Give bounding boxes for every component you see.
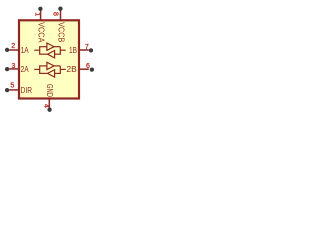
pin 4 terminal dot <box>47 108 51 112</box>
channel 2 top rail right wire <box>54 65 60 67</box>
channel 2 left stub wire <box>34 68 39 70</box>
svg-text:7: 7 <box>85 44 89 51</box>
svg-text:5: 5 <box>10 82 14 89</box>
channel 2 right connector wire <box>59 66 61 74</box>
pin 5 terminal dot <box>5 88 9 92</box>
channel 1 buffer A->B triangle <box>47 43 54 50</box>
svg-text:GND: GND <box>45 84 54 97</box>
channel 2 left connector wire <box>39 66 41 74</box>
channel 1 top rail left wire <box>39 46 47 48</box>
channel 1 bottom rail right wire <box>55 53 61 55</box>
svg-text:2: 2 <box>11 43 15 50</box>
svg-text:6: 6 <box>86 63 90 70</box>
svg-text:1: 1 <box>34 12 41 16</box>
pin 3 terminal dot <box>5 67 9 71</box>
pin 1 VCCA wire <box>40 10 42 20</box>
pin 1 terminal dot <box>38 7 42 11</box>
channel 1 buffer B->A triangle <box>48 51 55 58</box>
IC body U1 <box>19 20 79 98</box>
pin 8 VCCB wire <box>60 10 62 20</box>
pin 2 1A wire <box>9 49 19 51</box>
svg-text:2A: 2A <box>21 64 29 74</box>
svg-text:2B: 2B <box>66 64 77 74</box>
pin 2 terminal dot <box>5 48 9 52</box>
pin 6 2B wire <box>79 68 89 70</box>
svg-text:1B: 1B <box>69 45 77 55</box>
pin 8 terminal dot <box>58 7 62 11</box>
pin 7 terminal dot <box>89 48 93 52</box>
svg-text:VCCA: VCCA <box>36 22 45 43</box>
svg-text:4: 4 <box>43 104 50 108</box>
channel 1 bottom rail left wire <box>39 53 48 55</box>
channel 1 left connector wire <box>39 47 41 55</box>
pin 5 DIR wire <box>9 89 19 91</box>
channel 2 buffer B->A triangle <box>48 70 55 77</box>
pin 7 1B wire <box>79 49 89 51</box>
svg-text:3: 3 <box>11 63 15 70</box>
channel 2 bottom rail left wire <box>39 72 48 74</box>
channel 2 right stub wire <box>60 68 65 70</box>
channel 1 right stub wire <box>60 49 65 51</box>
channel 1 right connector wire <box>59 47 61 55</box>
svg-text:1A: 1A <box>21 45 29 55</box>
channel 2 buffer A->B triangle <box>47 62 54 69</box>
channel 2 bottom rail right wire <box>55 72 61 74</box>
pin 4 GND wire <box>48 98 50 108</box>
svg-text:8: 8 <box>52 12 59 16</box>
channel 1 top rail right wire <box>54 46 60 48</box>
svg-text:DIR: DIR <box>21 85 32 95</box>
pin 6 terminal dot <box>90 67 94 71</box>
channel 2 top rail left wire <box>39 65 47 67</box>
svg-text:VCCB: VCCB <box>56 22 65 42</box>
pin 3 2A wire <box>9 68 19 70</box>
channel 1 left stub wire <box>34 49 39 51</box>
